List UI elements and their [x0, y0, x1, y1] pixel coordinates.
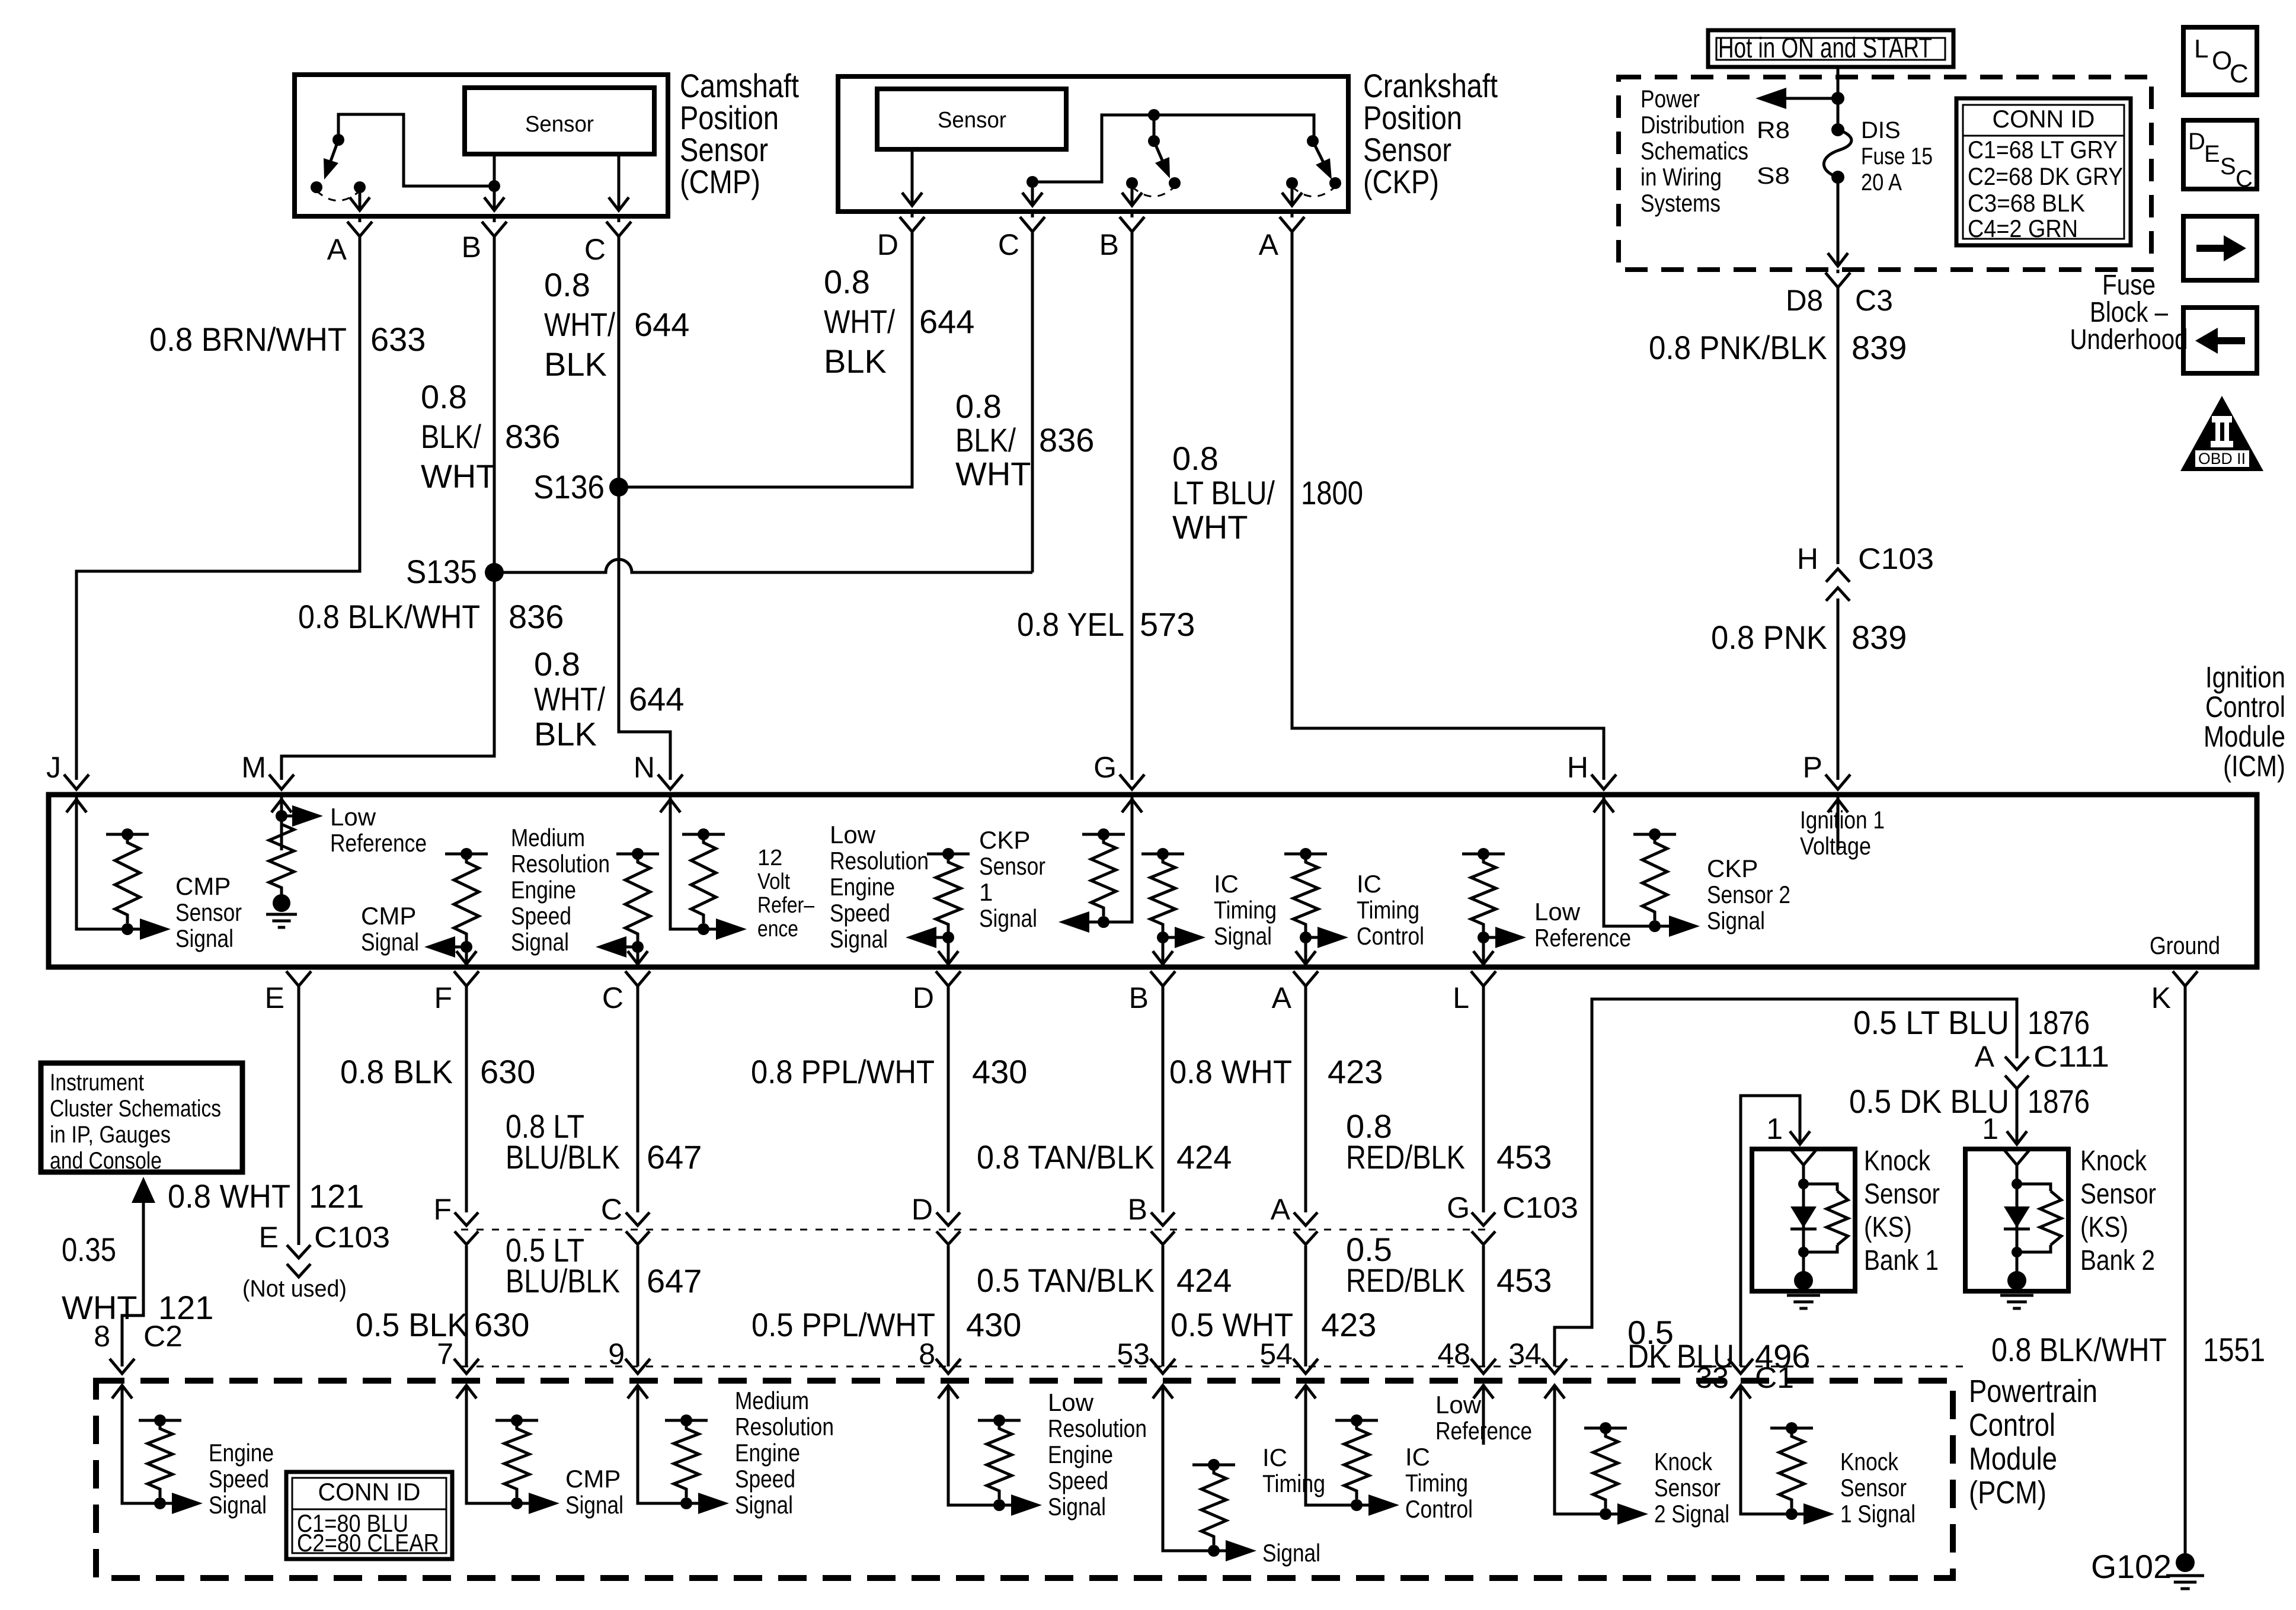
svg-text:(KS): (KS) — [1864, 1212, 1912, 1243]
svg-text:Sensor: Sensor — [175, 898, 242, 926]
wire 1876 LT BLU: PCM 34 up and over to connector C111 — [1555, 999, 2017, 1366]
svg-text:Signal: Signal — [361, 928, 419, 956]
svg-text:Timing: Timing — [1214, 896, 1277, 924]
svg-text:B: B — [1099, 228, 1119, 261]
CKP pin A connector chevron — [1280, 217, 1304, 232]
svg-text:WHT/: WHT/ — [534, 680, 605, 718]
connector chevron PCM pin 48 — [1471, 1359, 1496, 1374]
svg-text:0.8 BLK/WHT: 0.8 BLK/WHT — [1991, 1331, 2167, 1368]
svg-text:0.8 BLK: 0.8 BLK — [340, 1053, 453, 1090]
svg-text:Low: Low — [1534, 898, 1581, 926]
PCM internal wire at pin 48 — [1482, 1384, 1485, 1419]
svg-text:D: D — [913, 981, 934, 1014]
svg-text:WHT: WHT — [955, 455, 1031, 492]
svg-text:N: N — [634, 751, 655, 784]
svg-text:Speed: Speed — [511, 902, 571, 930]
svg-text:Low: Low — [1435, 1391, 1482, 1419]
svg-text:Low: Low — [330, 803, 376, 831]
svg-text:E: E — [2204, 141, 2220, 167]
svg-text:C103: C103 — [314, 1221, 390, 1254]
wire 121 WHT: ICM E to connector C103 (not used) — [298, 986, 300, 1245]
svg-text:C103: C103 — [1502, 1191, 1578, 1224]
svg-text:Refer–: Refer– — [757, 893, 815, 918]
svg-text:Sensor: Sensor — [1864, 1179, 1940, 1210]
sensor sub-box inside CMP — [465, 88, 654, 154]
symbol OBD II triangle — [2180, 396, 2263, 471]
svg-text:S136: S136 — [533, 468, 605, 505]
ICM internal: 12 Volt Reference circuit from pin N — [670, 797, 703, 929]
svg-text:E: E — [265, 981, 284, 1014]
svg-text:CONN ID: CONN ID — [318, 1478, 421, 1506]
svg-text:B: B — [462, 231, 481, 264]
component box: Knock Sensor (KS) Bank 1 — [1752, 1149, 1855, 1291]
wire 424 TAN/BLK: ICM B to PCM 53 — [1162, 986, 1165, 1366]
PCM internal wire from pin at x=2937 — [1741, 1438, 1792, 1514]
svg-text:C103: C103 — [1858, 542, 1934, 575]
svg-text:Resolution: Resolution — [1048, 1414, 1147, 1442]
svg-text:in Wiring: in Wiring — [1641, 163, 1722, 191]
svg-text:IC: IC — [1357, 870, 1382, 898]
in-line connector H C103 (double chevron) — [1826, 569, 1850, 601]
ICM pin E connector chevron — [286, 971, 311, 986]
svg-text:Sensor 2: Sensor 2 — [1707, 881, 1790, 908]
switch SW2 arm with arrowhead — [1154, 141, 1163, 163]
svg-text:A: A — [1271, 1193, 1291, 1226]
svg-text:12: 12 — [757, 846, 782, 870]
svg-text:Resolution: Resolution — [511, 850, 610, 878]
legend box LOC — [2183, 27, 2257, 95]
svg-text:RED/BLK: RED/BLK — [1346, 1138, 1465, 1176]
svg-text:7: 7 — [437, 1337, 453, 1371]
KS Bank 1 ground symbol — [1787, 1294, 1820, 1297]
in-line connector C103 chevrons on wire C — [626, 1212, 650, 1244]
svg-text:2 Signal: 2 Signal — [1654, 1500, 1729, 1528]
CKP pin D connector chevron — [900, 217, 925, 232]
svg-text:Signal: Signal — [175, 924, 234, 952]
svg-text:B: B — [1129, 981, 1149, 1014]
svg-text:Timing: Timing — [1405, 1469, 1468, 1497]
svg-text:Speed: Speed — [830, 899, 890, 927]
ICM pin G connector chevron — [1120, 774, 1144, 789]
svg-text:D: D — [2188, 129, 2205, 155]
svg-text:WHT/: WHT/ — [824, 303, 895, 340]
PCM internal wire from pin at x=2623 — [1555, 1438, 1606, 1514]
component box: Camshaft Position Sensor (CMP) — [295, 75, 668, 216]
ICM internal: Low Resolution Engine Speed Signal at pin D — [927, 853, 970, 856]
wire 839 leaving fuse box with arrow — [1828, 177, 1848, 266]
svg-text:836: 836 — [509, 598, 564, 635]
PCM entry arrow at x=206 — [112, 1385, 132, 1445]
svg-text:423: 423 — [1321, 1306, 1376, 1343]
CMP pin C connector chevron — [606, 222, 631, 236]
svg-text:WHT: WHT — [1172, 508, 1248, 546]
ICM internal: IC Timing Signal at pin B — [1141, 853, 1184, 856]
ICM internal: Medium Resolution Engine Speed Signal at pin C — [616, 853, 659, 856]
switch SW2 moving contact dot — [1169, 177, 1181, 189]
svg-text:BLK: BLK — [544, 345, 607, 383]
svg-text:Fuse 15: Fuse 15 — [1861, 143, 1933, 169]
svg-text:1: 1 — [1982, 1112, 1998, 1145]
svg-text:C3: C3 — [1855, 284, 1893, 317]
ICM pin M entry arrow — [271, 799, 292, 850]
resistor R-pcm-ic-timing-sig — [1192, 1464, 1235, 1467]
svg-text:Schematics: Schematics — [1641, 137, 1748, 165]
svg-text:0.8 BRN/WHT: 0.8 BRN/WHT — [149, 321, 347, 358]
svg-text:Sensor: Sensor — [1840, 1474, 1907, 1502]
ICM pin M connector chevron — [269, 774, 294, 789]
resistor R-pcm-low-res — [978, 1419, 1021, 1422]
svg-text:Knock: Knock — [1840, 1448, 1899, 1475]
component box: Knock Sensor (KS) Bank 2 — [1965, 1149, 2068, 1291]
wire from Hot banner into fuse — [1837, 67, 1840, 130]
svg-text:D: D — [912, 1193, 933, 1226]
switch SW2 fixed contact dot (pin B) — [1126, 177, 1138, 189]
svg-text:L: L — [2194, 34, 2208, 63]
svg-text:Signal: Signal — [1707, 907, 1765, 934]
KS Bank 1 parallel resistor — [1803, 1184, 1837, 1191]
switch SW1 fixed contact dot — [311, 181, 322, 193]
svg-text:0.8 YEL: 0.8 YEL — [1017, 606, 1124, 643]
svg-text:C4=2 GRN: C4=2 GRN — [1968, 215, 2078, 242]
svg-text:C2: C2 — [143, 1320, 183, 1353]
conn-id table (fuse block) — [1956, 98, 2131, 245]
svg-text:C: C — [601, 1193, 622, 1226]
svg-text:0.8: 0.8 — [534, 645, 580, 683]
in-line connector row C103 (dashed line) — [461, 1229, 1488, 1231]
svg-text:CMP: CMP — [565, 1465, 621, 1493]
svg-text:573: 573 — [1140, 606, 1195, 643]
svg-text:Systems: Systems — [1641, 189, 1721, 217]
svg-text:836: 836 — [505, 418, 560, 455]
CKP pin C connector chevron — [1020, 217, 1045, 232]
svg-text:F: F — [433, 1193, 452, 1226]
ICM internal: CMP Signal output at pin F — [445, 853, 488, 856]
svg-text:Signal: Signal — [1048, 1493, 1106, 1521]
svg-text:BLK/: BLK/ — [955, 421, 1016, 459]
KS Bank 2 case ground dot — [2007, 1271, 2026, 1290]
svg-text:CONN ID: CONN ID — [1993, 105, 2095, 133]
svg-text:Low: Low — [1048, 1388, 1094, 1416]
svg-text:0.5 LT BLU: 0.5 LT BLU — [1853, 1004, 2009, 1041]
svg-text:644: 644 — [919, 303, 974, 340]
module dashed box: Powertrain Control Module (PCM) — [96, 1381, 1953, 1578]
svg-text:0.35: 0.35 — [62, 1231, 116, 1268]
PCM internal wire from pin at x=206 — [122, 1438, 160, 1503]
in-line connector C103 chevrons on wire A — [1294, 1212, 1318, 1244]
svg-text:Ignition 1: Ignition 1 — [1800, 806, 1885, 834]
resistor R-lowref hanging from pin M — [269, 816, 294, 896]
svg-text:839: 839 — [1851, 619, 1907, 656]
svg-text:496: 496 — [1755, 1337, 1810, 1375]
svg-text:0.8: 0.8 — [421, 378, 467, 415]
svg-text:0.8: 0.8 — [955, 388, 1002, 425]
svg-text:P: P — [1803, 751, 1822, 784]
svg-text:C1=68 LT GRY: C1=68 LT GRY — [1968, 136, 2118, 164]
svg-text:Signal: Signal — [1214, 922, 1272, 950]
switch SW3 dashed travel arc — [1292, 187, 1335, 197]
svg-text:C: C — [584, 233, 606, 266]
PCM entry arrow at x=787 — [456, 1385, 477, 1445]
svg-text:BLK/: BLK/ — [421, 418, 481, 455]
connector chevron PCM pin 9 — [625, 1359, 650, 1374]
svg-text:Engine: Engine — [1048, 1441, 1113, 1468]
resistor R-pcm-knock1 — [1770, 1427, 1813, 1430]
svg-text:1 Signal: 1 Signal — [1840, 1500, 1916, 1528]
in-line connector A C111 (double chevron) — [2005, 1057, 2029, 1089]
wire 836: CKP C down to S135 branch — [1031, 232, 1034, 572]
PCM entry arrow at x=2937 — [1731, 1385, 1751, 1445]
switch SW3 moving contact dot — [1329, 177, 1341, 189]
dashed box: Fuse Block - Underhood power distribution — [1619, 77, 2151, 270]
svg-text:Module: Module — [2204, 720, 2285, 753]
connector chevron PCM pin 54 — [1293, 1359, 1318, 1374]
svg-text:Resolution: Resolution — [735, 1413, 834, 1441]
svg-text:Ground: Ground — [2150, 932, 2220, 959]
ICM pin P entry arrow — [1828, 799, 1848, 850]
svg-text:Signal: Signal — [209, 1491, 267, 1519]
svg-text:DIS: DIS — [1861, 117, 1901, 143]
svg-text:in IP, Gauges: in IP, Gauges — [50, 1122, 171, 1148]
svg-text:IC: IC — [1262, 1443, 1287, 1471]
svg-text:0.8 PPL/WHT: 0.8 PPL/WHT — [751, 1053, 935, 1090]
svg-text:C: C — [2236, 166, 2253, 192]
svg-text:S135: S135 — [406, 553, 477, 590]
svg-text:H: H — [1567, 751, 1588, 784]
ICM internal: CKP Sensor 2 Signal circuit from pin H — [1604, 797, 1655, 926]
svg-text:Signal: Signal — [735, 1491, 793, 1519]
svg-text:1: 1 — [979, 878, 993, 906]
svg-text:0.8 BLK/WHT: 0.8 BLK/WHT — [298, 598, 480, 635]
switch SW3 fixed contact dot (pin A) — [1286, 177, 1298, 189]
switch SW2 pivot dot — [1148, 135, 1160, 147]
svg-text:IC: IC — [1405, 1443, 1430, 1471]
in-line connector E C103 (double chevron) — [287, 1245, 311, 1277]
wire 1800 LT BLU/WHT: CKP A to ICM H — [1292, 232, 1604, 780]
resistor R-ckp2 — [1633, 833, 1676, 836]
legend right-arrow glyph — [2196, 245, 2226, 252]
svg-text:L: L — [1453, 981, 1469, 1014]
KS Bank 2 parallel resistor — [2017, 1184, 2051, 1191]
svg-text:G: G — [1447, 1191, 1470, 1224]
in-line connector C103 chevrons on wire F — [455, 1212, 478, 1244]
bus drop to SW2 pivot — [1153, 115, 1156, 141]
resistor R-pcm-engine-speed — [139, 1419, 181, 1422]
ICM pin A connector chevron — [1293, 971, 1318, 986]
svg-text:BLK: BLK — [824, 343, 887, 380]
wire 430 PPL/WHT: ICM D to PCM 8 — [947, 986, 950, 1366]
wire 1876 DK BLU from C111 to Knock Sensor Bank 2 — [2007, 1089, 2027, 1144]
PCM entry arrow at x=2203 — [1296, 1385, 1316, 1445]
svg-text:BLK: BLK — [534, 715, 597, 753]
svg-text:Speed: Speed — [735, 1465, 795, 1493]
wire 121 WHT to instrument cluster with arrow — [132, 1177, 155, 1203]
KS Bank 1 top junction dot — [1798, 1179, 1809, 1189]
svg-text:Sensor: Sensor — [938, 108, 1006, 133]
CKP pin B internal wire with arrow — [1122, 189, 1142, 206]
wire 644 WHT/BLK: CMP C to ICM N — [619, 236, 670, 780]
svg-text:0.8 TAN/BLK: 0.8 TAN/BLK — [977, 1138, 1155, 1176]
svg-text:630: 630 — [474, 1306, 529, 1343]
ICM pin N connector chevron — [658, 774, 683, 789]
svg-text:RED/BLK: RED/BLK — [1346, 1262, 1465, 1299]
CKP pin C internal wire with arrow — [1022, 188, 1043, 206]
svg-text:0.8 PNK/BLK: 0.8 PNK/BLK — [1649, 329, 1827, 366]
svg-text:0.5 TAN/BLK: 0.5 TAN/BLK — [977, 1262, 1155, 1299]
resistor R-pcm-ic-timing-ctl — [1335, 1419, 1378, 1422]
svg-text:Sensor: Sensor — [525, 112, 594, 137]
svg-text:Timing: Timing — [1357, 896, 1419, 924]
svg-text:430: 430 — [966, 1306, 1021, 1343]
svg-text:Underhood: Underhood — [2070, 324, 2188, 356]
svg-text:(CKP): (CKP) — [1363, 163, 1439, 200]
svg-text:Sensor: Sensor — [979, 852, 1045, 880]
svg-text:Knock: Knock — [1864, 1145, 1931, 1177]
svg-text:H: H — [1797, 542, 1818, 575]
svg-text:A: A — [1259, 228, 1279, 261]
wire 1551 BLK/WHT: ICM K to ground G102 — [2184, 986, 2187, 1553]
svg-text:Resolution: Resolution — [830, 847, 929, 875]
svg-text:C: C — [998, 228, 1019, 261]
splice S136 branch wire to CKP D — [619, 232, 912, 487]
svg-text:647: 647 — [647, 1138, 702, 1176]
svg-text:0.8 WHT: 0.8 WHT — [1169, 1053, 1292, 1090]
svg-text:1876: 1876 — [2028, 1083, 2090, 1120]
connector chevron PCM pin 8b — [936, 1359, 961, 1374]
KS Bank 1 case ground dot — [1794, 1271, 1813, 1290]
svg-text:0.8 WHT: 0.8 WHT — [168, 1177, 290, 1215]
svg-text:CKP: CKP — [1707, 854, 1758, 882]
ICM pin J connector chevron — [64, 774, 89, 789]
svg-text:BLU/BLK: BLU/BLK — [506, 1138, 620, 1176]
svg-text:C2=80 CLEAR: C2=80 CLEAR — [297, 1529, 439, 1557]
svg-text:Speed: Speed — [1048, 1467, 1108, 1494]
svg-text:A: A — [327, 233, 347, 266]
svg-text:1551: 1551 — [2203, 1331, 2265, 1368]
svg-text:(ICM): (ICM) — [2223, 750, 2285, 783]
wire 633 BRN/WHT: CMP A to ICM J — [76, 236, 360, 780]
svg-text:Reference: Reference — [1435, 1417, 1532, 1445]
switch SW1 dashed travel arc — [316, 191, 360, 201]
svg-text:S: S — [2220, 153, 2236, 180]
svg-text:Signal: Signal — [830, 925, 888, 953]
ICM pin J entry arrow — [66, 799, 87, 850]
connector chevron PCM pin 53 — [1150, 1359, 1175, 1374]
resistor R-cmp-signal — [106, 833, 149, 836]
svg-text:(Not used): (Not used) — [242, 1276, 347, 1302]
svg-text:CKP: CKP — [979, 826, 1030, 854]
ground G102 dot — [2176, 1553, 2195, 1572]
CKP pin C junction dot — [1027, 176, 1038, 188]
svg-text:Engine: Engine — [209, 1439, 274, 1467]
switch SW1 arm with arrowhead — [330, 140, 338, 164]
connector chevron PCM pin 34 — [1542, 1359, 1567, 1374]
svg-text:Control: Control — [2205, 690, 2285, 724]
svg-text:Signal: Signal — [1262, 1539, 1320, 1567]
svg-text:C: C — [2230, 59, 2249, 88]
ICM pin P connector chevron — [1825, 774, 1850, 789]
splice S135 dot — [485, 563, 504, 582]
ICM internal: CKP Sensor 1 Signal circuit from pin G — [1104, 797, 1132, 922]
svg-text:DK BLU: DK BLU — [1627, 1337, 1734, 1375]
CKP pin D internal wire with arrow — [902, 149, 922, 206]
resistor R-pcm-med-res — [665, 1419, 708, 1422]
svg-text:Knock: Knock — [2080, 1145, 2147, 1177]
svg-text:WHT/: WHT/ — [544, 306, 615, 343]
ICM pin B connector chevron — [1150, 971, 1175, 986]
resistor R-ckp1 — [1082, 833, 1125, 836]
svg-text:1800: 1800 — [1301, 474, 1363, 511]
svg-text:424: 424 — [1176, 1138, 1232, 1176]
svg-text:Control: Control — [1969, 1407, 2055, 1443]
ICM pin H connector chevron — [1591, 774, 1616, 789]
ICM pin L connector chevron — [1471, 971, 1496, 986]
splice S136 dot — [609, 478, 628, 497]
svg-text:C111: C111 — [2033, 1040, 2109, 1073]
svg-text:Reference: Reference — [330, 829, 427, 857]
svg-text:Module: Module — [1969, 1441, 2057, 1477]
svg-text:430: 430 — [972, 1053, 1027, 1090]
ICM pin D connector chevron — [936, 971, 961, 986]
CMP pin B internal wire with arrow — [484, 154, 504, 210]
switch SW1 inside CMP: pivot wire to sensor bus — [338, 114, 494, 186]
svg-text:K: K — [2151, 981, 2171, 1014]
wire 453 RED/BLK: ICM L to PCM 48 — [1482, 986, 1485, 1366]
svg-text:Medium: Medium — [735, 1387, 809, 1414]
svg-text:Signal: Signal — [979, 904, 1037, 932]
wire 839 PNK from C103 to ICM P — [1837, 598, 1840, 780]
CMP pin A internal wire with arrow — [350, 193, 370, 210]
junction dot on CMP sensor pin B wire — [488, 180, 500, 192]
PCM internal wire from pin at x=1962 — [1163, 1438, 1214, 1551]
legend box DESC — [2183, 120, 2257, 189]
ICM pin F connector chevron — [454, 971, 479, 986]
svg-text:633: 633 — [370, 321, 426, 358]
in-line connector C103 chevrons on wire B — [1151, 1212, 1175, 1244]
ICM pin K connector chevron — [2173, 971, 2198, 986]
PCM internal wire from pin at x=787 — [466, 1438, 517, 1503]
svg-text:E: E — [259, 1221, 279, 1254]
svg-text:Engine: Engine — [511, 876, 576, 904]
svg-text:M: M — [241, 751, 266, 784]
ICM internal wire at pin P — [1837, 797, 1840, 825]
svg-text:IC: IC — [1214, 870, 1239, 898]
svg-text:CMP: CMP — [175, 872, 231, 900]
svg-text:G102: G102 — [2091, 1548, 2172, 1585]
svg-text:Control: Control — [1405, 1495, 1473, 1523]
svg-text:Cluster Schematics: Cluster Schematics — [50, 1096, 221, 1122]
wire 647: ICM C to PCM 9 — [637, 986, 639, 1366]
in-line connector C103 chevrons on wire D — [936, 1212, 960, 1244]
connector chevron PCM pin 8 (C2) — [110, 1359, 135, 1374]
svg-text:Low: Low — [830, 821, 876, 849]
resistor R-pcm-cmp-signal — [495, 1419, 538, 1422]
svg-text:BLU/BLK: BLU/BLK — [506, 1262, 620, 1299]
conn-id table (PCM) — [286, 1472, 452, 1559]
svg-text:C3=68 BLK: C3=68 BLK — [1968, 189, 2085, 217]
KS Bank 2 top junction dot — [2012, 1179, 2022, 1189]
resistor R-pcm-knock2 — [1584, 1427, 1627, 1430]
svg-text:Engine: Engine — [830, 873, 895, 901]
module box: Ignition Control Module (ICM) — [49, 795, 2257, 967]
svg-text:20 A: 20 A — [1861, 169, 1902, 196]
svg-text:Distribution: Distribution — [1641, 111, 1745, 139]
fuse F15 element (S-curve) with terminal dots — [1831, 123, 1844, 136]
svg-text:Volt: Volt — [757, 869, 790, 894]
svg-text:0.8: 0.8 — [824, 263, 870, 300]
svg-text:Bank 1: Bank 1 — [1864, 1245, 1939, 1276]
resistor R-12v — [682, 833, 725, 836]
PCM internal wire from pin at x=1076 — [638, 1438, 686, 1503]
